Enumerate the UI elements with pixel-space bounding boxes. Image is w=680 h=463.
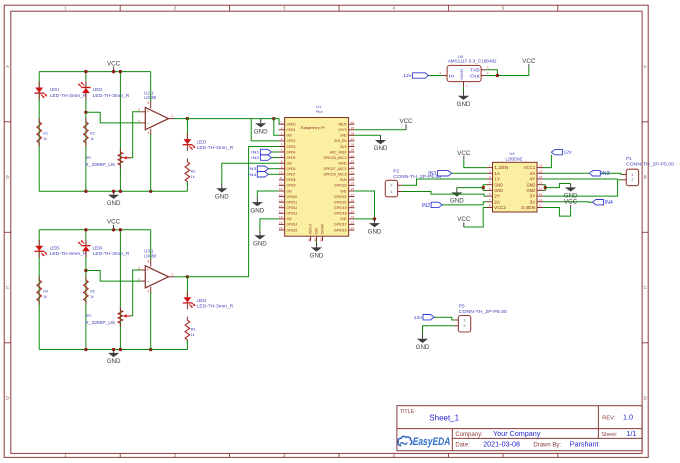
- svg-text:1: 1: [463, 318, 465, 322]
- svg-text:GND: GND: [527, 182, 536, 187]
- svg-text:GPIO16: GPIO16: [334, 228, 347, 232]
- svg-text:1k: 1k: [191, 332, 195, 337]
- svg-text:+: +: [147, 109, 150, 114]
- svg-text:3V3: 3V3: [340, 145, 346, 149]
- svg-text:R_3386P_US: R_3386P_US: [85, 320, 115, 325]
- svg-text:GPIO10: GPIO10: [287, 195, 298, 199]
- svg-text:LED-TH-3mm_R: LED-TH-3mm_R: [93, 251, 130, 256]
- svg-text:GPIO20: GPIO20: [334, 201, 347, 205]
- svg-text:GPIO27_ADC1: GPIO27_ADC1: [324, 167, 347, 171]
- svg-text:1: 1: [171, 114, 173, 118]
- svg-text:VCC: VCC: [522, 58, 536, 65]
- svg-text:13: 13: [539, 181, 543, 185]
- svg-text:LED-TH-3mm_R: LED-TH-3mm_R: [50, 251, 87, 256]
- svg-text:GPIO0: GPIO0: [287, 123, 296, 127]
- svg-text:35: 35: [351, 148, 355, 152]
- svg-text:IN1: IN1: [251, 150, 260, 155]
- svg-text:17: 17: [279, 210, 283, 214]
- svg-text:R_3386P_US: R_3386P_US: [85, 162, 115, 167]
- svg-text:R4: R4: [43, 289, 48, 294]
- svg-text:15: 15: [279, 198, 283, 202]
- svg-text:VSYS: VSYS: [338, 128, 347, 132]
- svg-text:IN1: IN1: [428, 171, 436, 177]
- svg-text:31: 31: [351, 171, 355, 175]
- svg-text:11: 11: [279, 176, 282, 180]
- svg-text:34: 34: [351, 154, 355, 158]
- svg-text:4Y: 4Y: [530, 177, 536, 182]
- svg-text:EasyEDA: EasyEDA: [413, 436, 451, 448]
- svg-text:VCC: VCC: [107, 219, 121, 226]
- svg-text:30: 30: [351, 176, 355, 180]
- svg-text:GND: GND: [494, 188, 503, 193]
- svg-text:SWDIO: SWDIO: [321, 224, 325, 235]
- svg-text:1k: 1k: [43, 294, 47, 299]
- svg-text:2: 2: [631, 178, 633, 182]
- svg-text:GPIO17: GPIO17: [334, 223, 347, 227]
- svg-text:3A: 3A: [530, 199, 536, 204]
- svg-text:L293DNE: L293DNE: [506, 156, 523, 161]
- svg-text:10: 10: [279, 171, 283, 175]
- svg-text:GND: GND: [340, 189, 347, 193]
- svg-text:GND: GND: [215, 194, 229, 201]
- svg-text:14: 14: [279, 193, 283, 197]
- svg-text:1k: 1k: [90, 294, 94, 299]
- svg-text:19: 19: [279, 221, 283, 225]
- svg-text:GND: GND: [310, 253, 324, 260]
- svg-text:26: 26: [351, 198, 355, 202]
- svg-text:D: D: [6, 396, 9, 401]
- svg-text:VCC: VCC: [107, 60, 121, 67]
- svg-text:GND: GND: [459, 69, 464, 80]
- svg-text:37: 37: [351, 137, 355, 141]
- svg-text:GPIO14: GPIO14: [287, 223, 298, 227]
- svg-text:GPIO5: GPIO5: [287, 156, 296, 160]
- svg-text:Out: Out: [470, 74, 481, 79]
- svg-text:A: A: [644, 64, 647, 69]
- svg-text:LED5: LED5: [50, 245, 60, 250]
- svg-text:VCC: VCC: [457, 150, 471, 157]
- svg-text:CONN-TH_2P-P5.00: CONN-TH_2P-P5.00: [459, 309, 507, 314]
- svg-text:GND: GND: [254, 128, 268, 135]
- svg-text:GPIO12: GPIO12: [287, 206, 298, 210]
- svg-text:R3: R3: [191, 169, 196, 174]
- svg-text:IN3: IN3: [601, 171, 609, 177]
- svg-text:IN3: IN3: [248, 166, 257, 171]
- svg-text:GND: GND: [287, 134, 293, 138]
- svg-text:REV:: REV:: [602, 416, 615, 422]
- svg-text:R2: R2: [90, 130, 95, 135]
- svg-text:1.0: 1.0: [623, 413, 633, 422]
- svg-text:LED3: LED3: [197, 140, 207, 145]
- svg-text:Parshant: Parshant: [570, 439, 599, 448]
- svg-text:4: 4: [148, 131, 150, 135]
- svg-text:Sheet_1: Sheet_1: [429, 414, 459, 423]
- svg-text:39: 39: [351, 126, 355, 130]
- svg-text:VCC: VCC: [399, 118, 413, 125]
- svg-text:16: 16: [539, 164, 543, 168]
- svg-text:GPIO28_ADC2: GPIO28_ADC2: [324, 156, 347, 160]
- svg-text:2021-03-08: 2021-03-08: [483, 439, 520, 448]
- svg-text:28: 28: [351, 187, 355, 191]
- svg-text:GND: GND: [287, 189, 293, 193]
- svg-text:1/1: 1/1: [627, 429, 637, 438]
- svg-text:20: 20: [279, 226, 283, 230]
- svg-text:VBUS: VBUS: [338, 123, 347, 127]
- svg-text:IN2: IN2: [422, 203, 430, 209]
- svg-text:25: 25: [351, 204, 355, 208]
- svg-text:21: 21: [351, 226, 355, 230]
- svg-text:4: 4: [148, 289, 150, 293]
- svg-text:8: 8: [148, 259, 150, 263]
- svg-text:1Y: 1Y: [494, 177, 500, 182]
- svg-text:Company:: Company:: [455, 432, 483, 438]
- svg-text:AGND: AGND: [338, 162, 347, 166]
- svg-text:GPIO6: GPIO6: [287, 167, 296, 171]
- svg-text:12v: 12v: [403, 73, 412, 78]
- svg-text:GND: GND: [250, 207, 264, 214]
- svg-text:Pico: Pico: [316, 109, 324, 114]
- svg-text:Date:: Date:: [455, 442, 470, 448]
- svg-text:12v: 12v: [414, 315, 423, 320]
- svg-text:C: C: [644, 285, 647, 290]
- svg-text:VCC: VCC: [457, 216, 471, 223]
- svg-text:SWCLK: SWCLK: [309, 223, 313, 234]
- svg-text:AMS1117-3.3_C166482: AMS1117-3.3_C166482: [448, 59, 498, 64]
- svg-text:GND: GND: [368, 228, 382, 235]
- svg-text:Raspberry Pi: Raspberry Pi: [301, 126, 325, 130]
- svg-text:Your Company: Your Company: [493, 429, 541, 438]
- svg-text:GND: GND: [450, 198, 464, 205]
- svg-text:18: 18: [279, 215, 283, 219]
- svg-text:1: 1: [631, 173, 633, 177]
- svg-text:R1: R1: [43, 130, 48, 135]
- svg-text:TAB: TAB: [470, 68, 480, 73]
- svg-text:IN2: IN2: [251, 155, 260, 160]
- svg-text:29: 29: [351, 182, 355, 186]
- svg-text:12: 12: [279, 182, 283, 186]
- svg-text:LED-TH-3mm_R: LED-TH-3mm_R: [197, 303, 234, 308]
- svg-text:12v: 12v: [563, 150, 572, 155]
- svg-text:D: D: [644, 396, 647, 401]
- svg-text:LED-TH-3mm_R: LED-TH-3mm_R: [50, 93, 87, 98]
- svg-text:1: 1: [171, 272, 173, 276]
- svg-text:VCC: VCC: [564, 199, 578, 206]
- svg-text:GPIO7: GPIO7: [287, 173, 296, 177]
- svg-text:−: −: [147, 279, 150, 284]
- svg-text:CONN-TH_2P-P5.00: CONN-TH_2P-P5.00: [626, 161, 674, 166]
- svg-text:32: 32: [351, 165, 355, 169]
- svg-text:1,2EN: 1,2EN: [494, 165, 508, 170]
- svg-text:LED1: LED1: [50, 87, 60, 92]
- svg-text:GPIO13: GPIO13: [287, 212, 298, 216]
- svg-text:GND: GND: [494, 182, 503, 187]
- svg-text:2: 2: [390, 184, 392, 188]
- svg-text:24: 24: [351, 210, 355, 214]
- svg-text:43: 43: [319, 238, 323, 242]
- svg-text:1k: 1k: [191, 174, 195, 179]
- svg-text:IN4: IN4: [248, 172, 257, 177]
- svg-text:GPIO18: GPIO18: [334, 212, 347, 216]
- svg-text:1k: 1k: [90, 136, 94, 141]
- svg-text:GPIO1: GPIO1: [287, 128, 296, 132]
- svg-text:8: 8: [148, 101, 150, 105]
- svg-text:15: 15: [539, 169, 543, 173]
- svg-text:LED-TH-3mm_R: LED-TH-3mm_R: [197, 145, 234, 150]
- svg-text:33: 33: [351, 159, 355, 163]
- svg-text:40: 40: [351, 120, 355, 124]
- svg-text:B: B: [644, 175, 647, 180]
- svg-text:+: +: [147, 267, 150, 272]
- svg-text:GND: GND: [340, 217, 347, 221]
- svg-text:38: 38: [351, 132, 355, 136]
- svg-text:LED2: LED2: [93, 87, 103, 92]
- svg-text:R6: R6: [191, 327, 196, 332]
- svg-text:Drawn By:: Drawn By:: [533, 443, 561, 449]
- svg-text:GPIO3: GPIO3: [287, 145, 296, 149]
- svg-text:Sheet:: Sheet:: [601, 432, 618, 438]
- svg-text:IN4: IN4: [605, 200, 613, 206]
- svg-text:GND: GND: [315, 228, 319, 235]
- svg-text:2Y: 2Y: [494, 194, 500, 199]
- svg-text:4A: 4A: [530, 171, 536, 176]
- svg-text:ADC_VREF: ADC_VREF: [330, 150, 347, 154]
- svg-text:LED-TH-3mm_R: LED-TH-3mm_R: [93, 93, 130, 98]
- svg-text:GND: GND: [340, 134, 347, 138]
- svg-text:12: 12: [539, 186, 543, 190]
- svg-text:GPIO9: GPIO9: [287, 184, 296, 188]
- svg-text:GPIO15: GPIO15: [287, 228, 298, 232]
- svg-text:13: 13: [279, 187, 283, 191]
- svg-text:GPIO26_ADC0: GPIO26_ADC0: [324, 173, 347, 177]
- svg-text:VCC2: VCC2: [494, 205, 506, 210]
- svg-text:27: 27: [351, 193, 355, 197]
- svg-text:LED6: LED6: [93, 245, 103, 250]
- svg-text:3,4EN: 3,4EN: [521, 205, 535, 210]
- svg-text:1A: 1A: [494, 171, 500, 176]
- svg-text:14: 14: [539, 175, 543, 179]
- svg-text:GND: GND: [107, 200, 121, 207]
- svg-text:A: A: [6, 64, 9, 69]
- svg-text:GND: GND: [457, 101, 471, 108]
- svg-text:GPIO11: GPIO11: [287, 201, 298, 205]
- svg-text:GPIO4: GPIO4: [287, 150, 296, 154]
- svg-text:2: 2: [463, 324, 465, 328]
- svg-text:RUN: RUN: [340, 178, 347, 182]
- svg-text:10: 10: [539, 198, 543, 202]
- svg-text:TITLE:: TITLE:: [400, 409, 416, 415]
- svg-text:GPIO8: GPIO8: [287, 178, 296, 182]
- svg-text:GPIO19: GPIO19: [334, 206, 347, 210]
- svg-text:LED4: LED4: [197, 298, 207, 303]
- svg-text:In: In: [449, 74, 455, 79]
- svg-text:RP1: RP1: [86, 155, 92, 160]
- svg-text:B: B: [6, 175, 9, 180]
- svg-text:R5: R5: [90, 289, 95, 294]
- svg-text:2A: 2A: [494, 199, 500, 204]
- svg-text:GPIO21: GPIO21: [334, 195, 347, 199]
- svg-text:41: 41: [307, 238, 311, 242]
- svg-text:36: 36: [351, 143, 355, 147]
- svg-text:3Y: 3Y: [530, 194, 536, 199]
- svg-text:GND: GND: [287, 162, 293, 166]
- svg-text:1: 1: [390, 190, 392, 194]
- svg-text:16: 16: [279, 204, 283, 208]
- svg-text:GND: GND: [287, 217, 293, 221]
- svg-text:GND: GND: [374, 145, 388, 152]
- svg-text:VCC1: VCC1: [524, 165, 536, 170]
- svg-text:11: 11: [539, 192, 542, 196]
- svg-text:22: 22: [351, 221, 355, 225]
- svg-text:GPIO22: GPIO22: [334, 184, 347, 188]
- svg-text:−: −: [147, 120, 150, 125]
- svg-text:23: 23: [351, 215, 355, 219]
- svg-text:RP2: RP2: [86, 313, 92, 318]
- svg-text:GND: GND: [107, 358, 121, 365]
- svg-text:1k: 1k: [43, 136, 47, 141]
- svg-text:GPIO2: GPIO2: [287, 139, 296, 143]
- svg-text:GND: GND: [253, 241, 267, 248]
- svg-text:GND: GND: [416, 344, 430, 351]
- svg-text:GND: GND: [527, 188, 536, 193]
- svg-text:C: C: [6, 285, 9, 290]
- svg-text:3V3_EN: 3V3_EN: [334, 139, 347, 143]
